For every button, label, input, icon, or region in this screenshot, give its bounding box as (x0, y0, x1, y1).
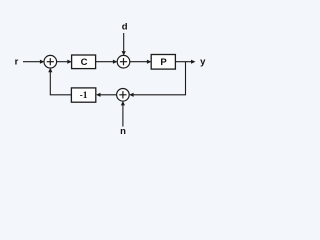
svg-text:n: n (120, 126, 126, 137)
svg-text:r: r (15, 56, 19, 67)
svg-text:d: d (122, 22, 128, 33)
svg-text:y: y (200, 56, 206, 67)
svg-text:P: P (160, 57, 167, 68)
svg-text:C: C (81, 57, 88, 68)
svg-text:-1: -1 (80, 91, 88, 101)
